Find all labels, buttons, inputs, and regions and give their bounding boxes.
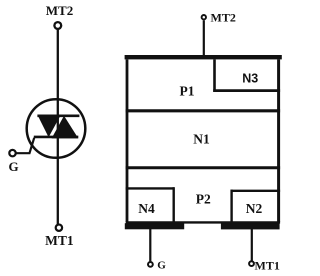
node P1/N1 junction boundary [126,109,280,112]
triac U1 body circle [27,99,86,158]
node N1/P2 junction boundary [126,166,280,169]
svg-text:N2: N2 [246,201,263,216]
terminal MT2 (structure diagram) [202,15,206,19]
electrode G (bottom-left metal bar) [125,223,184,229]
triac thyristor 2 triangle (points up) [52,116,79,139]
svg-text:MT1: MT1 [255,259,280,273]
wire MT2 lead (structure diagram) [203,20,205,56]
electrode MT1 (bottom-right metal bar) [221,223,280,229]
terminal MT1 (structure diagram) [249,261,254,266]
svg-text:G: G [9,159,19,174]
wire MT1 lead (structure diagram) [251,229,253,261]
region N2 box left edge [230,190,232,222]
svg-text:MT1: MT1 [45,233,74,248]
svg-text:N3: N3 [242,71,258,85]
svg-text:MT2: MT2 [211,10,236,24]
triac thyristor 1 triangle (points down) [37,115,61,137]
triac upper bar (thyristor 2 cathode line) [37,115,79,118]
terminal G (triac symbol) [9,150,15,156]
wire left border of structure [126,60,129,223]
svg-text:P2: P2 [196,192,211,207]
wire bottom border of structure [126,221,280,223]
region N2 box top edge [231,190,281,192]
wire G lead (structure diagram) [149,229,151,262]
region N4 box right edge [172,187,174,222]
terminal MT2 (triac symbol) [54,22,61,29]
svg-text:MT2: MT2 [46,3,73,18]
svg-text:N4: N4 [138,201,155,216]
region N3 box left edge [213,60,216,92]
triac lower bar (thyristor 1 cathode line) [34,136,79,139]
region N3 box bottom edge [213,89,280,92]
region N4 box top edge [126,187,175,189]
wire MT2 lead to MT1 (main vertical) [57,29,59,225]
svg-text:P1: P1 [180,84,195,99]
wire right border of structure [277,60,280,223]
terminal MT1 (triac symbol) [56,225,62,231]
svg-text:G: G [157,260,166,272]
gate wire [16,138,34,153]
svg-text:N1: N1 [193,132,210,147]
terminal G (structure diagram) [148,262,153,267]
electrode MT2 (top metal bar) [125,55,282,59]
